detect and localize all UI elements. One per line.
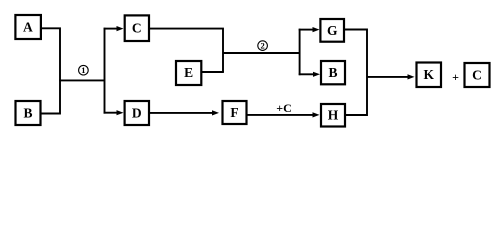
- svg-text:+C: +C: [276, 101, 292, 115]
- svg-text:C: C: [472, 67, 482, 82]
- svg-text:G: G: [327, 23, 338, 38]
- svg-text:E: E: [184, 65, 193, 80]
- svg-text:+: +: [452, 70, 459, 84]
- svg-text:B: B: [23, 105, 32, 120]
- svg-text:F: F: [230, 105, 238, 120]
- svg-text:2: 2: [260, 41, 264, 51]
- svg-text:C: C: [132, 21, 142, 36]
- svg-text:K: K: [423, 67, 434, 82]
- svg-text:1: 1: [81, 65, 85, 75]
- svg-text:H: H: [328, 108, 339, 123]
- svg-text:A: A: [23, 20, 33, 35]
- svg-text:B: B: [328, 65, 337, 80]
- svg-text:D: D: [132, 105, 142, 120]
